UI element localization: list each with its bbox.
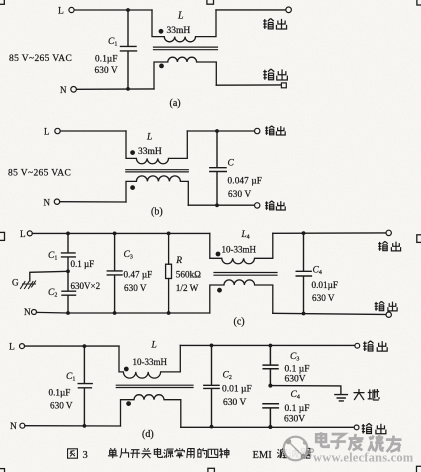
node N input (b) xyxy=(54,199,59,204)
capacitor C4 (d) xyxy=(263,404,278,427)
capacitor C3 (d) xyxy=(263,346,278,386)
svg-text:C: C xyxy=(228,159,235,169)
junction C3 bottom (c) xyxy=(113,311,117,315)
node N input (d) xyxy=(20,423,25,428)
wire output top (a) xyxy=(216,9,286,11)
junction cap C top (b) xyxy=(215,129,219,133)
svg-text:0.01 µF: 0.01 µF xyxy=(222,384,252,394)
polarity dot top (a) xyxy=(159,29,164,34)
ground G symbol (c) xyxy=(21,281,36,289)
label output bottom (c) xyxy=(375,301,397,311)
capacitor C4 (c) xyxy=(296,233,311,313)
junction R bottom (c) xyxy=(167,311,171,315)
choke core (c) xyxy=(214,273,277,276)
junction C3 top (d) xyxy=(269,344,273,348)
wire output bottom (d) xyxy=(181,426,354,428)
svg-text:N: N xyxy=(10,422,17,432)
choke L top winding (b) xyxy=(126,131,187,164)
wire L top (d) xyxy=(25,345,120,347)
junction C1 top (d) xyxy=(83,344,87,348)
wire L top (a) xyxy=(74,9,152,11)
label output top (a) xyxy=(263,19,286,30)
junction C3 top (c) xyxy=(113,232,117,236)
svg-text:N: N xyxy=(60,85,67,95)
svg-text:L: L xyxy=(44,127,50,137)
node N input (c) xyxy=(32,310,37,315)
svg-text:630V: 630V xyxy=(284,414,305,424)
label output top (d) xyxy=(363,341,387,351)
wire N bottom (a) xyxy=(77,88,154,90)
node L input (c) xyxy=(27,231,32,236)
choke L top winding (d) xyxy=(119,345,180,378)
svg-text:630V: 630V xyxy=(285,375,306,385)
edge marker square top-left xyxy=(0,0,4,4)
capacitor C2 (d) xyxy=(204,345,219,426)
choke L bottom winding (d) xyxy=(121,395,181,428)
label output top (b) xyxy=(265,126,285,135)
node output bottom terminal (a) xyxy=(281,83,286,88)
edge marker square bottom-middle xyxy=(208,468,215,472)
junction cap C bottom (b) xyxy=(215,203,219,207)
svg-text:(c): (c) xyxy=(234,316,245,327)
svg-text:0.47 µF: 0.47 µF xyxy=(124,269,153,279)
wire N bottom (d) xyxy=(25,425,121,427)
svg-text:630 V: 630 V xyxy=(223,398,246,408)
edge marker square left-middle xyxy=(0,232,5,240)
svg-text:0.1µF: 0.1µF xyxy=(49,388,71,398)
edge marker square top-right xyxy=(417,0,421,5)
svg-text:(a): (a) xyxy=(170,98,181,109)
node L input (d) xyxy=(20,344,25,349)
junction R top (c) xyxy=(167,232,171,236)
svg-text:G: G xyxy=(12,277,19,287)
wire output top (c) xyxy=(273,232,386,234)
node L input (a) xyxy=(69,7,74,12)
svg-text:L: L xyxy=(58,7,64,17)
svg-text:L: L xyxy=(177,11,184,22)
edge marker square bottom-left xyxy=(0,469,5,472)
choke L top winding (a) xyxy=(152,10,216,42)
junction C2 top (d) xyxy=(210,344,214,348)
svg-text:N: N xyxy=(44,197,51,207)
junction C1 bottom (d) xyxy=(83,424,87,428)
svg-text:(d): (d) xyxy=(142,429,154,440)
svg-text:(b): (b) xyxy=(151,206,163,217)
svg-text:L: L xyxy=(20,229,26,239)
svg-text:0.1µF: 0.1µF xyxy=(95,54,118,64)
svg-text:630V×2: 630V×2 xyxy=(71,281,101,291)
choke L4 bottom winding (c) xyxy=(210,280,273,313)
polarity dot bottom (a) xyxy=(159,64,164,69)
wire L top (c) xyxy=(32,232,210,234)
choke core (d) xyxy=(116,385,193,387)
junction C1 top (c) xyxy=(66,232,70,236)
polarity dot top (c) xyxy=(216,252,221,257)
edge marker square bottom-right xyxy=(417,466,421,472)
svg-text:10-33mH: 10-33mH xyxy=(133,357,168,367)
junction C1-top (a) xyxy=(126,8,130,12)
wire L top (b) xyxy=(60,130,126,132)
label output bottom (d) xyxy=(362,423,386,433)
junction C1-bottom (a) xyxy=(126,87,130,91)
junction C2 bottom (c) xyxy=(66,311,70,315)
svg-text:33mH: 33mH xyxy=(138,147,162,157)
watermark logo circle xyxy=(284,437,314,461)
svg-text:33mH: 33mH xyxy=(167,26,191,36)
earth ground symbol (d) xyxy=(335,395,348,401)
node L input (b) xyxy=(55,128,60,133)
svg-text:85 V~265 VAC: 85 V~265 VAC xyxy=(8,168,71,178)
capacitor C3 (c) xyxy=(107,233,122,313)
polarity dot top (d) xyxy=(124,367,129,372)
svg-text:L: L xyxy=(9,342,15,352)
choke L bottom winding (a) xyxy=(154,57,216,89)
wire output bottom (c) xyxy=(273,313,386,314)
svg-text:85 V~265 VAC: 85 V~265 VAC xyxy=(9,54,72,64)
svg-text:630 V: 630 V xyxy=(124,283,147,293)
svg-text:630 V: 630 V xyxy=(228,189,252,199)
node output top terminal (b) xyxy=(255,128,260,133)
svg-text:560kΩ: 560kΩ xyxy=(176,269,201,279)
label earth 大地 (d) xyxy=(353,389,379,400)
svg-text:630 V: 630 V xyxy=(312,293,335,303)
svg-text:0.1 µF: 0.1 µF xyxy=(285,364,310,374)
junction C4 top (c) xyxy=(302,231,306,235)
wire output bottom (a) xyxy=(216,84,281,86)
label output top (c) xyxy=(378,241,400,251)
svg-text:www.elecfans.com: www.elecfans.com xyxy=(313,451,414,465)
svg-text:0.01µF: 0.01µF xyxy=(312,280,338,290)
svg-text:630 V: 630 V xyxy=(95,65,119,75)
polarity dot bottom (b) xyxy=(130,185,135,190)
choke L4 top winding (c) xyxy=(210,233,273,263)
label output bottom (a) xyxy=(263,69,287,80)
polarity dot bottom (c) xyxy=(217,288,222,293)
edge marker square right-middle xyxy=(417,235,421,243)
label output bottom (b) xyxy=(265,201,285,210)
node output bottom terminal (b) xyxy=(255,203,260,208)
wire N bottom (b) xyxy=(60,201,126,203)
svg-text:L: L xyxy=(146,133,152,143)
wire N bottom (c) xyxy=(37,311,210,314)
svg-text:0.1 µF: 0.1 µF xyxy=(71,259,95,269)
node output top terminal (c) xyxy=(386,230,391,235)
choke core (a) xyxy=(154,47,218,50)
wire output bottom (b) xyxy=(188,204,254,206)
svg-text:630 V: 630 V xyxy=(50,401,73,411)
svg-text:0.047 µF: 0.047 µF xyxy=(228,176,263,186)
wire earth branch (d) xyxy=(270,386,341,395)
node output top terminal (a) xyxy=(286,7,292,13)
resistor R (c) xyxy=(168,233,170,313)
capacitor C1 (c) xyxy=(62,233,76,271)
caption figure 3 xyxy=(68,449,78,458)
polarity dot top (b) xyxy=(130,150,135,155)
node output top terminal (d) xyxy=(355,343,360,348)
junction C4 bottom (c) xyxy=(302,312,306,316)
capacitor C2 (c) xyxy=(62,271,76,313)
edge marker square top-middle xyxy=(207,0,214,4)
svg-text:EMI: EMI xyxy=(253,450,273,461)
capacitor C1 (a) xyxy=(121,10,137,89)
node N input (a) xyxy=(71,87,77,93)
svg-text:1/2 W: 1/2 W xyxy=(176,283,199,293)
wire ground branch (c) xyxy=(30,271,68,281)
node output bottom terminal (d) xyxy=(354,425,359,430)
node output bottom terminal (c) xyxy=(386,312,391,317)
svg-text:3: 3 xyxy=(83,450,88,461)
svg-text:0.1 µF: 0.1 µF xyxy=(285,404,310,414)
junction C4 bottom (d) xyxy=(268,425,272,429)
polarity dot bottom (d) xyxy=(126,401,131,406)
junction C2 bottom (d) xyxy=(210,425,214,429)
choke L bottom winding (b) xyxy=(126,176,188,205)
wire output top (d) xyxy=(180,344,354,346)
svg-text:10-33mH: 10-33mH xyxy=(222,244,257,254)
svg-text:L: L xyxy=(151,341,157,351)
junction earth tap (d) xyxy=(268,384,272,388)
capacitor C1 (d) xyxy=(78,346,92,426)
wire output top (b) xyxy=(187,130,254,132)
svg-text:R: R xyxy=(175,256,182,266)
choke core (b) xyxy=(126,170,189,172)
junction ground tap (c) xyxy=(66,269,70,273)
capacitor C (b) xyxy=(210,131,227,205)
svg-text:N: N xyxy=(24,307,31,317)
watermark text dianzi fashaoyou xyxy=(316,432,401,452)
